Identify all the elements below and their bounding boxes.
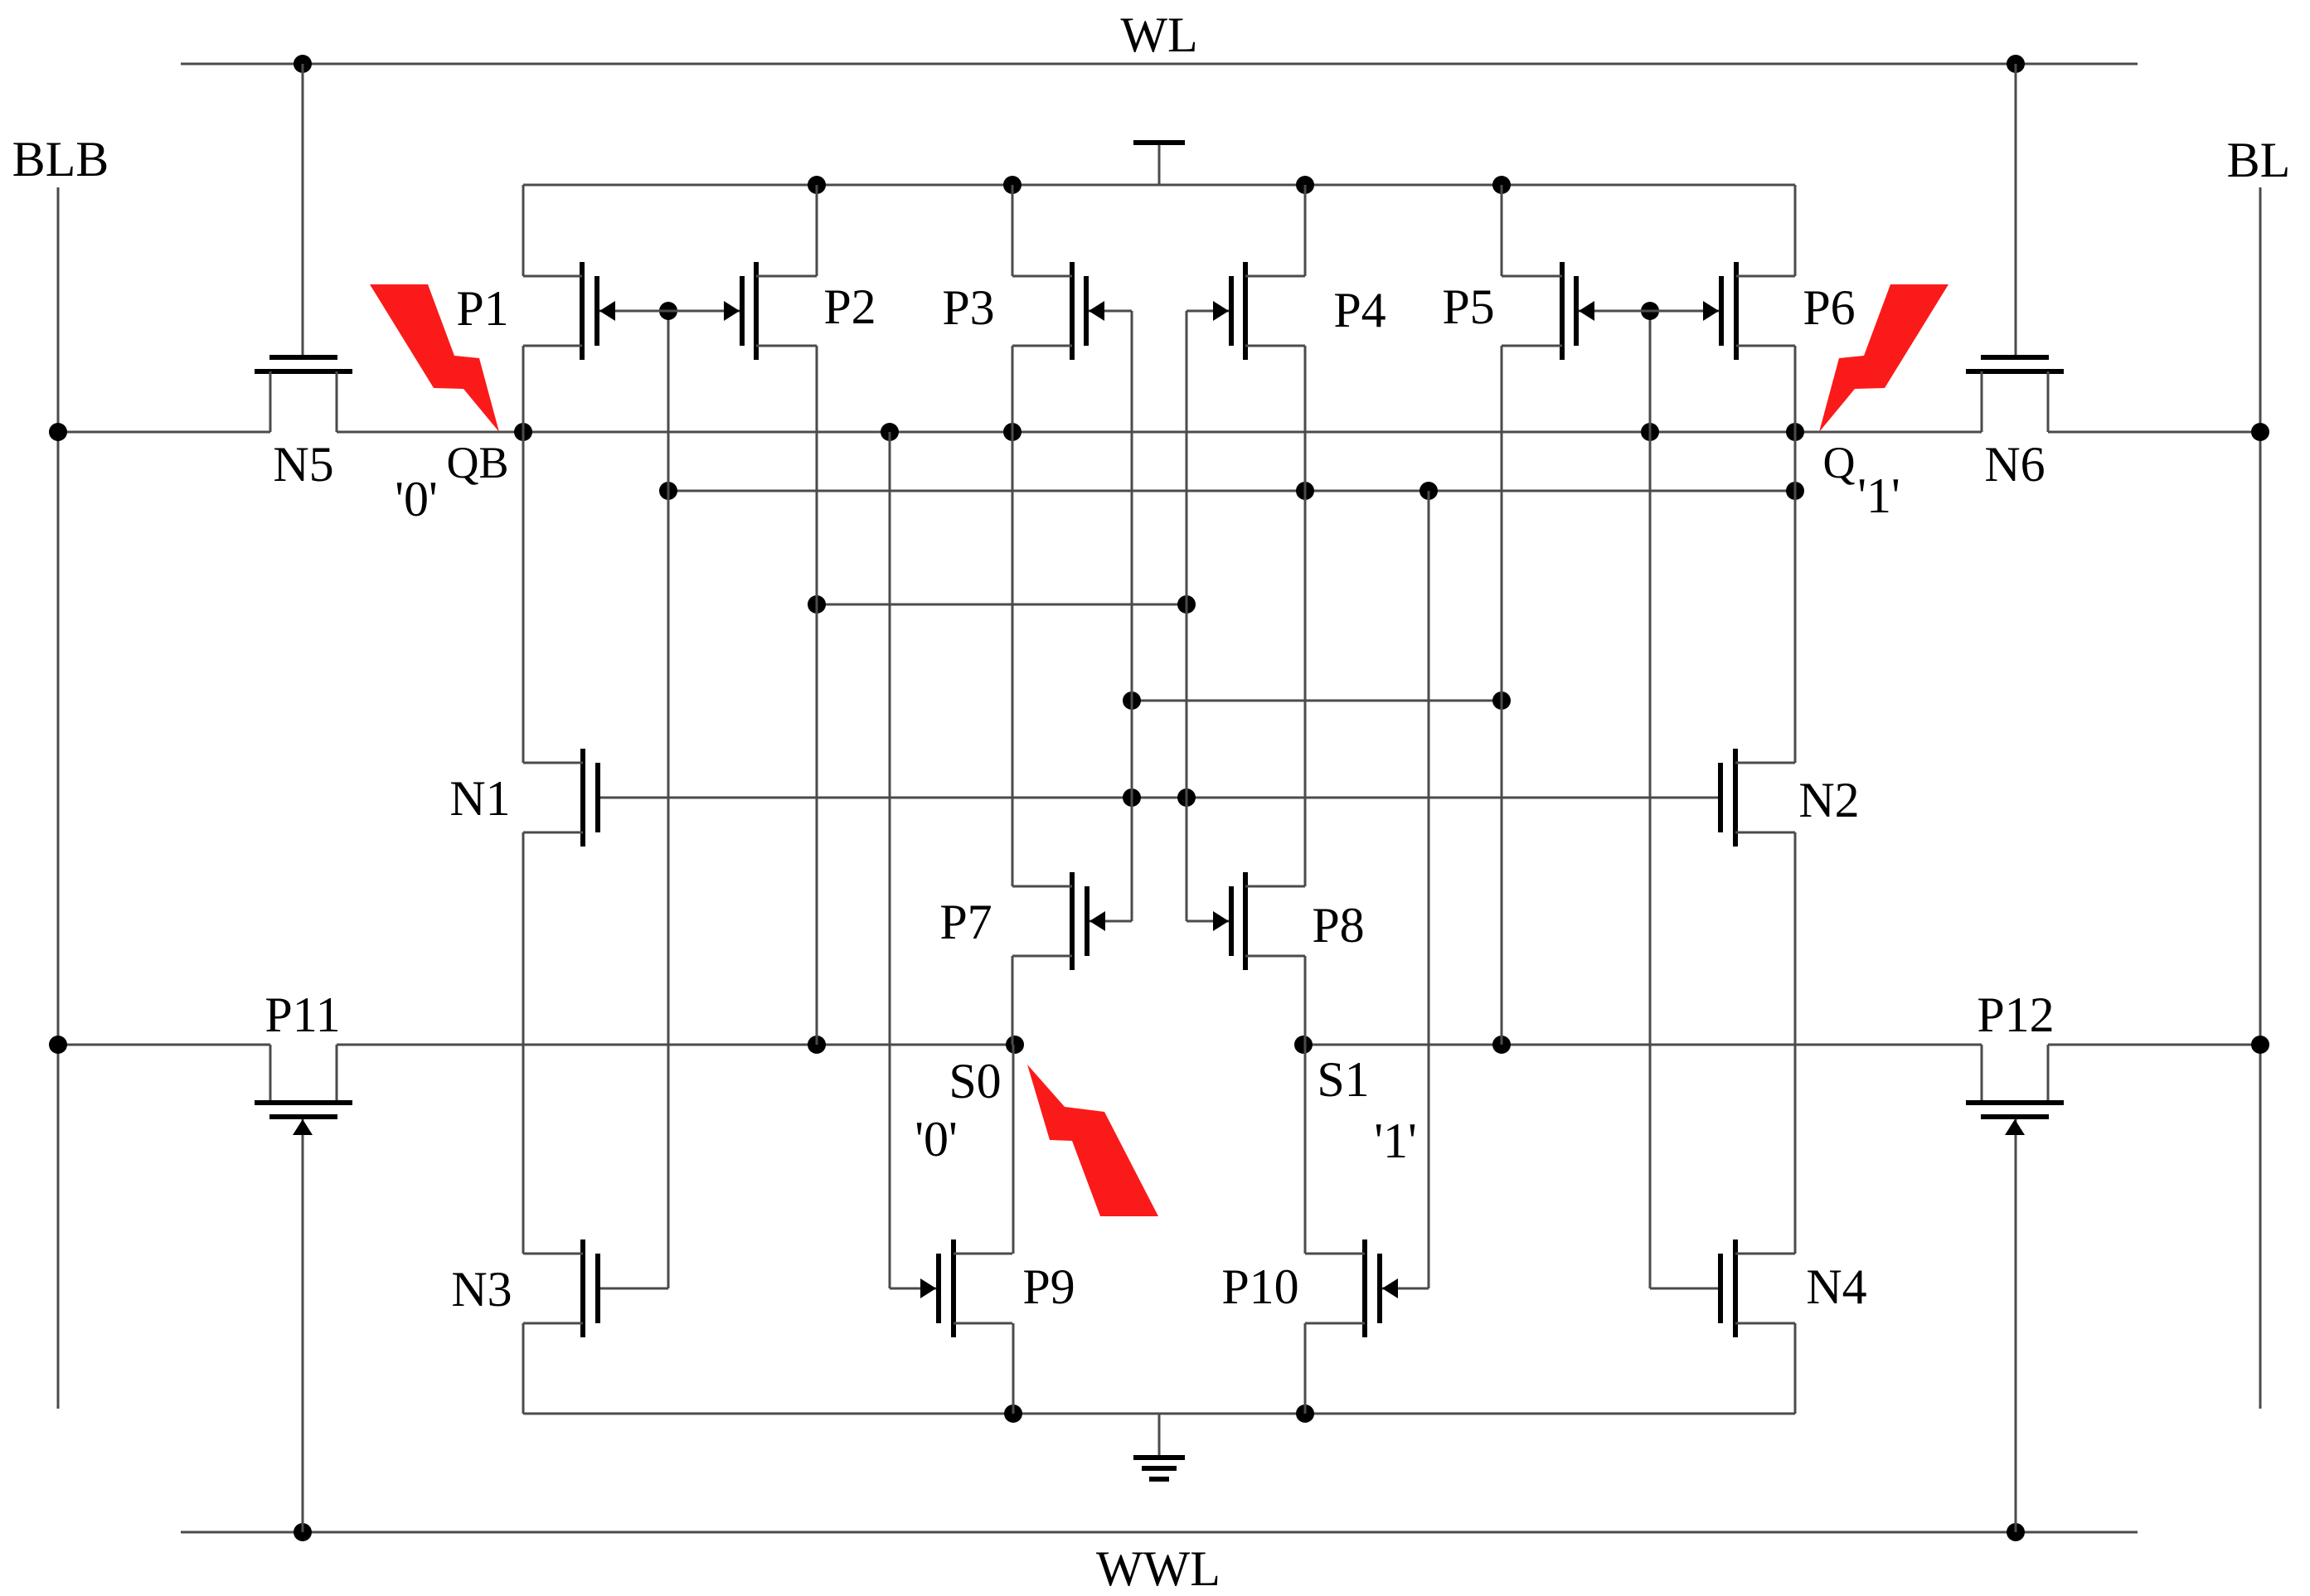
transistor N6 NMOS access xyxy=(1966,357,2064,432)
transistor P2 PMOS xyxy=(724,262,817,360)
wire P7 drain to S0 xyxy=(1012,956,1014,1045)
wire BLB bitline-bar vertical xyxy=(57,187,60,1409)
SEU strike bolt at QB xyxy=(370,284,499,432)
svg-text:P10: P10 xyxy=(1221,1259,1298,1314)
SEU strike bolt at S0 xyxy=(1027,1065,1158,1216)
svg-text:P1: P1 xyxy=(456,281,508,336)
wire QB row to P7 source xyxy=(1012,432,1014,886)
node QB-S0column junction xyxy=(1003,423,1022,441)
svg-text:'0': '0' xyxy=(915,1112,958,1167)
svg-text:N2: N2 xyxy=(1798,773,1859,827)
transistor P7 PMOS xyxy=(1012,872,1105,970)
wire P7 gate lead xyxy=(1089,920,1132,923)
power VDD symbol xyxy=(1133,143,1185,185)
wire P5-P6 gate lead xyxy=(1579,310,1719,313)
svg-text:N6: N6 xyxy=(1984,437,2045,492)
wire P1 source to VDD xyxy=(522,185,525,276)
wire VDD rail xyxy=(523,184,1795,187)
wire QB row from N5 to center xyxy=(337,431,1159,434)
wire Q row center to N6 xyxy=(1159,431,1982,434)
wire P3 source to VDD xyxy=(1012,185,1014,276)
wire QB row from BLB to N5 xyxy=(58,431,270,434)
node S0 internal node xyxy=(1006,1036,1024,1054)
wire GND rail xyxy=(523,1413,1795,1415)
node VDD-P3 tap xyxy=(1003,176,1022,194)
wire P10 gate lead xyxy=(1382,1288,1429,1290)
node S0row-P2draincolumn junction xyxy=(808,1036,826,1054)
node lineA-P1P2gate junction xyxy=(659,482,677,500)
transistor P11 PMOS write access xyxy=(255,1045,352,1135)
wire S1 to P10 source xyxy=(1304,1045,1307,1254)
wire P9 gate column from QB row xyxy=(889,432,891,1288)
node QB storage node xyxy=(514,423,532,441)
wire P8 gate lead xyxy=(1187,920,1229,923)
svg-text:S1: S1 xyxy=(1317,1052,1369,1107)
node lineC-P5drain junction xyxy=(1492,691,1511,710)
svg-text:P2: P2 xyxy=(823,279,876,334)
transistor P10 PMOS xyxy=(1305,1239,1398,1337)
node BLB-S0row junction xyxy=(49,1036,67,1054)
node Q-P5P6gate junction xyxy=(1641,423,1659,441)
wire N4 gate lead to Q gate column xyxy=(1650,1288,1718,1290)
node S1 internal node xyxy=(1294,1036,1313,1054)
svg-text:'1': '1' xyxy=(1374,1113,1417,1168)
svg-text:WWL: WWL xyxy=(1096,1541,1221,1596)
wire S0 row from BLB to P11 xyxy=(58,1044,270,1046)
node N1N2gate-P3gate junction xyxy=(1123,788,1141,807)
transistor N2 NMOS xyxy=(1720,749,1795,847)
node VDD-P2 tap xyxy=(808,176,826,194)
svg-text:P12: P12 xyxy=(1977,987,2054,1042)
node Q storage node xyxy=(1786,423,1804,441)
wire P3 gate lead xyxy=(1089,310,1132,313)
wire P5P6 gate column down to N4 gate xyxy=(1649,311,1652,1288)
transistor P3 PMOS xyxy=(1012,262,1104,360)
transistor P4 PMOS xyxy=(1213,262,1305,360)
node P5P6 gate tie xyxy=(1641,302,1659,320)
wire P4 drain to line A xyxy=(1304,346,1307,491)
svg-text:P6: P6 xyxy=(1803,280,1855,335)
wire P2 source to VDD xyxy=(816,185,818,276)
wire P6 drain to Q xyxy=(1794,346,1797,432)
svg-text:P11: P11 xyxy=(264,987,340,1042)
node QB-P9gate junction xyxy=(881,423,899,441)
SEU strike bolt at Q xyxy=(1819,284,1948,432)
node lineA-P4drain-P8source junction xyxy=(1296,482,1314,500)
node lineC-P3gate junction xyxy=(1123,691,1141,710)
svg-text:BL: BL xyxy=(2227,133,2291,187)
svg-text:P8: P8 xyxy=(1312,898,1364,953)
transistor P1 PMOS xyxy=(523,262,615,360)
ground symbol xyxy=(1133,1414,1185,1479)
node P1P2 gate tie xyxy=(659,302,677,320)
transistor P6 PMOS xyxy=(1703,262,1795,360)
wire cross line B from P2 drain to P4 gate xyxy=(817,604,1187,606)
transistor N3 NMOS xyxy=(523,1239,598,1337)
transistor P5 PMOS xyxy=(1502,262,1594,360)
wire P1-P2 gate lead xyxy=(599,310,740,313)
wire P12 gate stem to WWL xyxy=(2015,1119,2017,1532)
wire P11 gate stem to WWL xyxy=(302,1119,304,1532)
transistor P8 PMOS xyxy=(1213,872,1305,970)
node BL-S1row junction xyxy=(2251,1036,2269,1054)
node GNDrail-P9drain junction xyxy=(1004,1404,1022,1423)
wire S1 row from P12 to BL xyxy=(2048,1044,2260,1046)
wire line A to P8 source xyxy=(1304,491,1307,886)
wire N2 drain to N4 source xyxy=(1794,832,1797,1254)
svg-text:N4: N4 xyxy=(1806,1259,1866,1314)
wire P2 drain column down to S0 row xyxy=(816,346,818,1045)
node lineA-Qcolumn junction xyxy=(1786,482,1804,500)
wire P5 drain column down to S1 row xyxy=(1501,346,1503,1045)
node WL-N6 junction xyxy=(2007,55,2025,73)
wire P4 gate column down to P8 gate xyxy=(1186,311,1188,921)
wire P3 drain to QB row xyxy=(1012,346,1014,432)
transistor N1 NMOS xyxy=(523,749,598,847)
node S1row-P5draincolumn junction xyxy=(1492,1036,1511,1054)
wire N5 gate stem from WL xyxy=(302,64,304,355)
wire N6 gate stem from WL xyxy=(2015,64,2017,355)
transistor N4 NMOS xyxy=(1720,1239,1795,1337)
wire S1 row from S1 node to P12 xyxy=(1303,1044,1982,1046)
transistor P9 PMOS xyxy=(920,1239,1012,1337)
svg-text:BLB: BLB xyxy=(12,132,109,187)
svg-text:N5: N5 xyxy=(273,437,333,492)
wire Q column to N2 source xyxy=(1794,432,1797,763)
transistor P12 PMOS write access xyxy=(1966,1045,2064,1135)
svg-text:WL: WL xyxy=(1120,7,1197,62)
svg-text:N3: N3 xyxy=(451,1262,512,1317)
wire P8 drain to S1 xyxy=(1304,956,1307,1045)
node GNDrail-P10drain junction xyxy=(1296,1404,1314,1423)
wire P3 gate column down to P7 gate xyxy=(1131,311,1133,921)
wire WWL write word line xyxy=(181,1531,2138,1534)
wire cross line C from P3 gate to P5 drain xyxy=(1132,700,1502,702)
wire N1 drain to N3 source xyxy=(522,832,525,1254)
transistor N5 NMOS access xyxy=(255,357,352,432)
svg-text:P3: P3 xyxy=(942,280,994,335)
svg-text:P5: P5 xyxy=(1442,279,1494,334)
svg-text:S0: S0 xyxy=(949,1054,1001,1108)
svg-text:QB: QB xyxy=(446,438,508,488)
node VDD-P4 tap xyxy=(1296,176,1314,194)
wire P10 drain to GND rail xyxy=(1304,1323,1307,1414)
wire P6 source to VDD xyxy=(1794,185,1797,276)
node BL-Q junction xyxy=(2251,423,2269,441)
wire P1P2 gate column down to N3 gate xyxy=(667,311,670,1288)
wire S0 row from P11 to S0 node xyxy=(337,1044,1015,1046)
node WWL-P12gate junction xyxy=(2007,1523,2025,1541)
wire P10 gate column from line A xyxy=(1428,491,1430,1288)
node lineB-P4gate junction xyxy=(1177,595,1196,614)
node BLB-QB junction xyxy=(49,423,67,441)
node lineA-P10gate junction xyxy=(1419,482,1438,500)
wire P4 gate lead xyxy=(1187,310,1229,313)
wire Q row N6 to BL xyxy=(2048,431,2260,434)
node WL-N5 junction xyxy=(294,55,312,73)
wire N3 gate lead to line A column xyxy=(600,1288,668,1290)
svg-text:N1: N1 xyxy=(449,771,510,826)
wire N3 drain to GND rail xyxy=(522,1323,525,1414)
wire cross line A from P1P2 gate column to Q column xyxy=(668,490,1795,492)
node VDD-P5 tap xyxy=(1492,176,1511,194)
wire P9 gate lead xyxy=(890,1288,936,1290)
node N1N2gate-P4gate junction xyxy=(1177,788,1196,807)
wire N4 drain to GND rail xyxy=(1794,1323,1797,1414)
node WWL-P11gate junction xyxy=(294,1523,312,1541)
wire BL bitline vertical xyxy=(2259,187,2262,1409)
svg-text:P9: P9 xyxy=(1022,1259,1075,1314)
svg-text:'1': '1' xyxy=(1857,468,1900,523)
svg-text:'0': '0' xyxy=(395,472,438,526)
wire N1-N2 gate row xyxy=(600,797,1718,799)
wire QB column to N1 source xyxy=(522,432,525,763)
wire P9 drain to GND rail xyxy=(1012,1323,1015,1414)
wire S0 to P9 source xyxy=(1012,1045,1015,1254)
svg-text:Q: Q xyxy=(1823,438,1856,488)
svg-text:P4: P4 xyxy=(1333,283,1386,337)
svg-text:P7: P7 xyxy=(939,895,992,949)
node lineB-P2drain junction xyxy=(808,595,826,614)
wire P5 source to VDD xyxy=(1501,185,1503,276)
wire WL word line xyxy=(181,63,2138,65)
wire P4 source to VDD xyxy=(1304,185,1307,276)
wire P1 drain to QB xyxy=(522,346,525,432)
